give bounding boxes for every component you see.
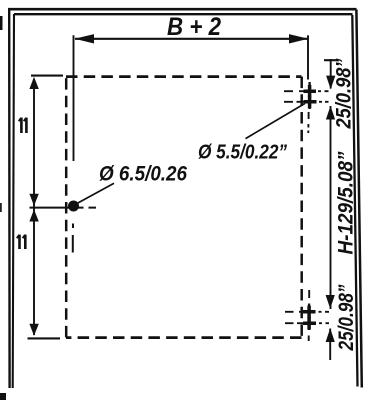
top right hole vertical dash-dot below (307, 112, 309, 133)
svg-text:H-129/5.08”: H-129/5.08” (335, 151, 358, 254)
page frame right outer line (356, 10, 361, 388)
dimension 11 vertical line (33, 79, 35, 335)
dashed cutout rectangle top edge (66, 75, 302, 78)
dashed cutout rectangle left edge (65, 77, 68, 338)
right dimension 25 lower line (329, 329, 331, 361)
scan artifact left edge top (0, 16, 3, 30)
leader line to Ø5.5 label (246, 103, 306, 138)
dimension 11 upper bottom arrowhead (29, 194, 38, 206)
top right hole upper cross (304, 85, 317, 98)
svg-text:25/0.98”: 25/0.98” (335, 284, 358, 351)
top right hole lower cross (304, 96, 317, 109)
page frame left inner line (13, 14, 14, 388)
page frame right inner line (352, 15, 357, 387)
dimension 11 lower bottom arrowhead (29, 324, 38, 336)
right dimension 25 upper line (330, 59, 332, 89)
top right hole lower center line (284, 101, 329, 103)
label 11 upper (19, 118, 27, 133)
right dimension 25 upper up arrowhead (326, 106, 335, 120)
svg-text:Ø 6.5/0.26: Ø 6.5/0.26 (99, 163, 187, 186)
dimension B+2 line (75, 38, 308, 40)
bottom right hole upper center line (285, 311, 329, 313)
bottom right hole lower cross (303, 317, 316, 330)
right dimension top serif tick (324, 59, 338, 61)
page frame left outer line (8, 8, 11, 388)
scan artifact bottom left corner (0, 393, 6, 400)
page frame top inner line (14, 13, 353, 15)
right dimension H bottom down arrowhead (326, 295, 335, 309)
leader line to Ø6.5 label (77, 183, 115, 204)
dashed cutout rectangle right edge (300, 77, 303, 338)
dimension 11 lower top arrowhead (29, 209, 38, 221)
dimension 11 upper top arrowhead (29, 77, 38, 89)
dimension 11 upper extension tick (31, 75, 63, 77)
bottom right hole vertical dash above (308, 290, 310, 298)
left hole dot (68, 201, 79, 212)
bottom right hole upper cross (303, 306, 316, 318)
left hole center horizontal line (30, 207, 97, 209)
dimension B+2 left arrowhead (75, 34, 94, 43)
dimension B+2 right arrowhead (289, 34, 308, 43)
dimension B+2 right extension line (307, 35, 309, 79)
top right hole vertical center line (308, 82, 310, 109)
svg-text:25/0.98”: 25/0.98” (333, 58, 356, 129)
bottom right hole vertical center line (308, 304, 310, 331)
svg-text:Ø 5.5/0.22”: Ø 5.5/0.22” (198, 142, 287, 164)
right dimension H line (330, 106, 332, 309)
bottom right hole vertical dash below (308, 336, 310, 342)
page frame top outer line (8, 8, 357, 11)
left hole center vertical dash-dot below dot (72, 224, 74, 253)
dimension B+2 left extension line down to hole (73, 35, 75, 161)
right dimension 25 lower up arrowhead (326, 328, 335, 342)
dimension 11 lower extension tick (28, 337, 61, 339)
dashed cutout rectangle bottom edge (66, 336, 302, 339)
right dimension 25 upper down arrowhead (326, 76, 335, 90)
top right hole upper center line (284, 90, 329, 92)
bottom right hole lower center line (285, 322, 329, 324)
scan artifact left edge middle (0, 203, 2, 212)
svg-text:B + 2: B + 2 (167, 13, 221, 41)
label 11 lower (17, 235, 26, 249)
